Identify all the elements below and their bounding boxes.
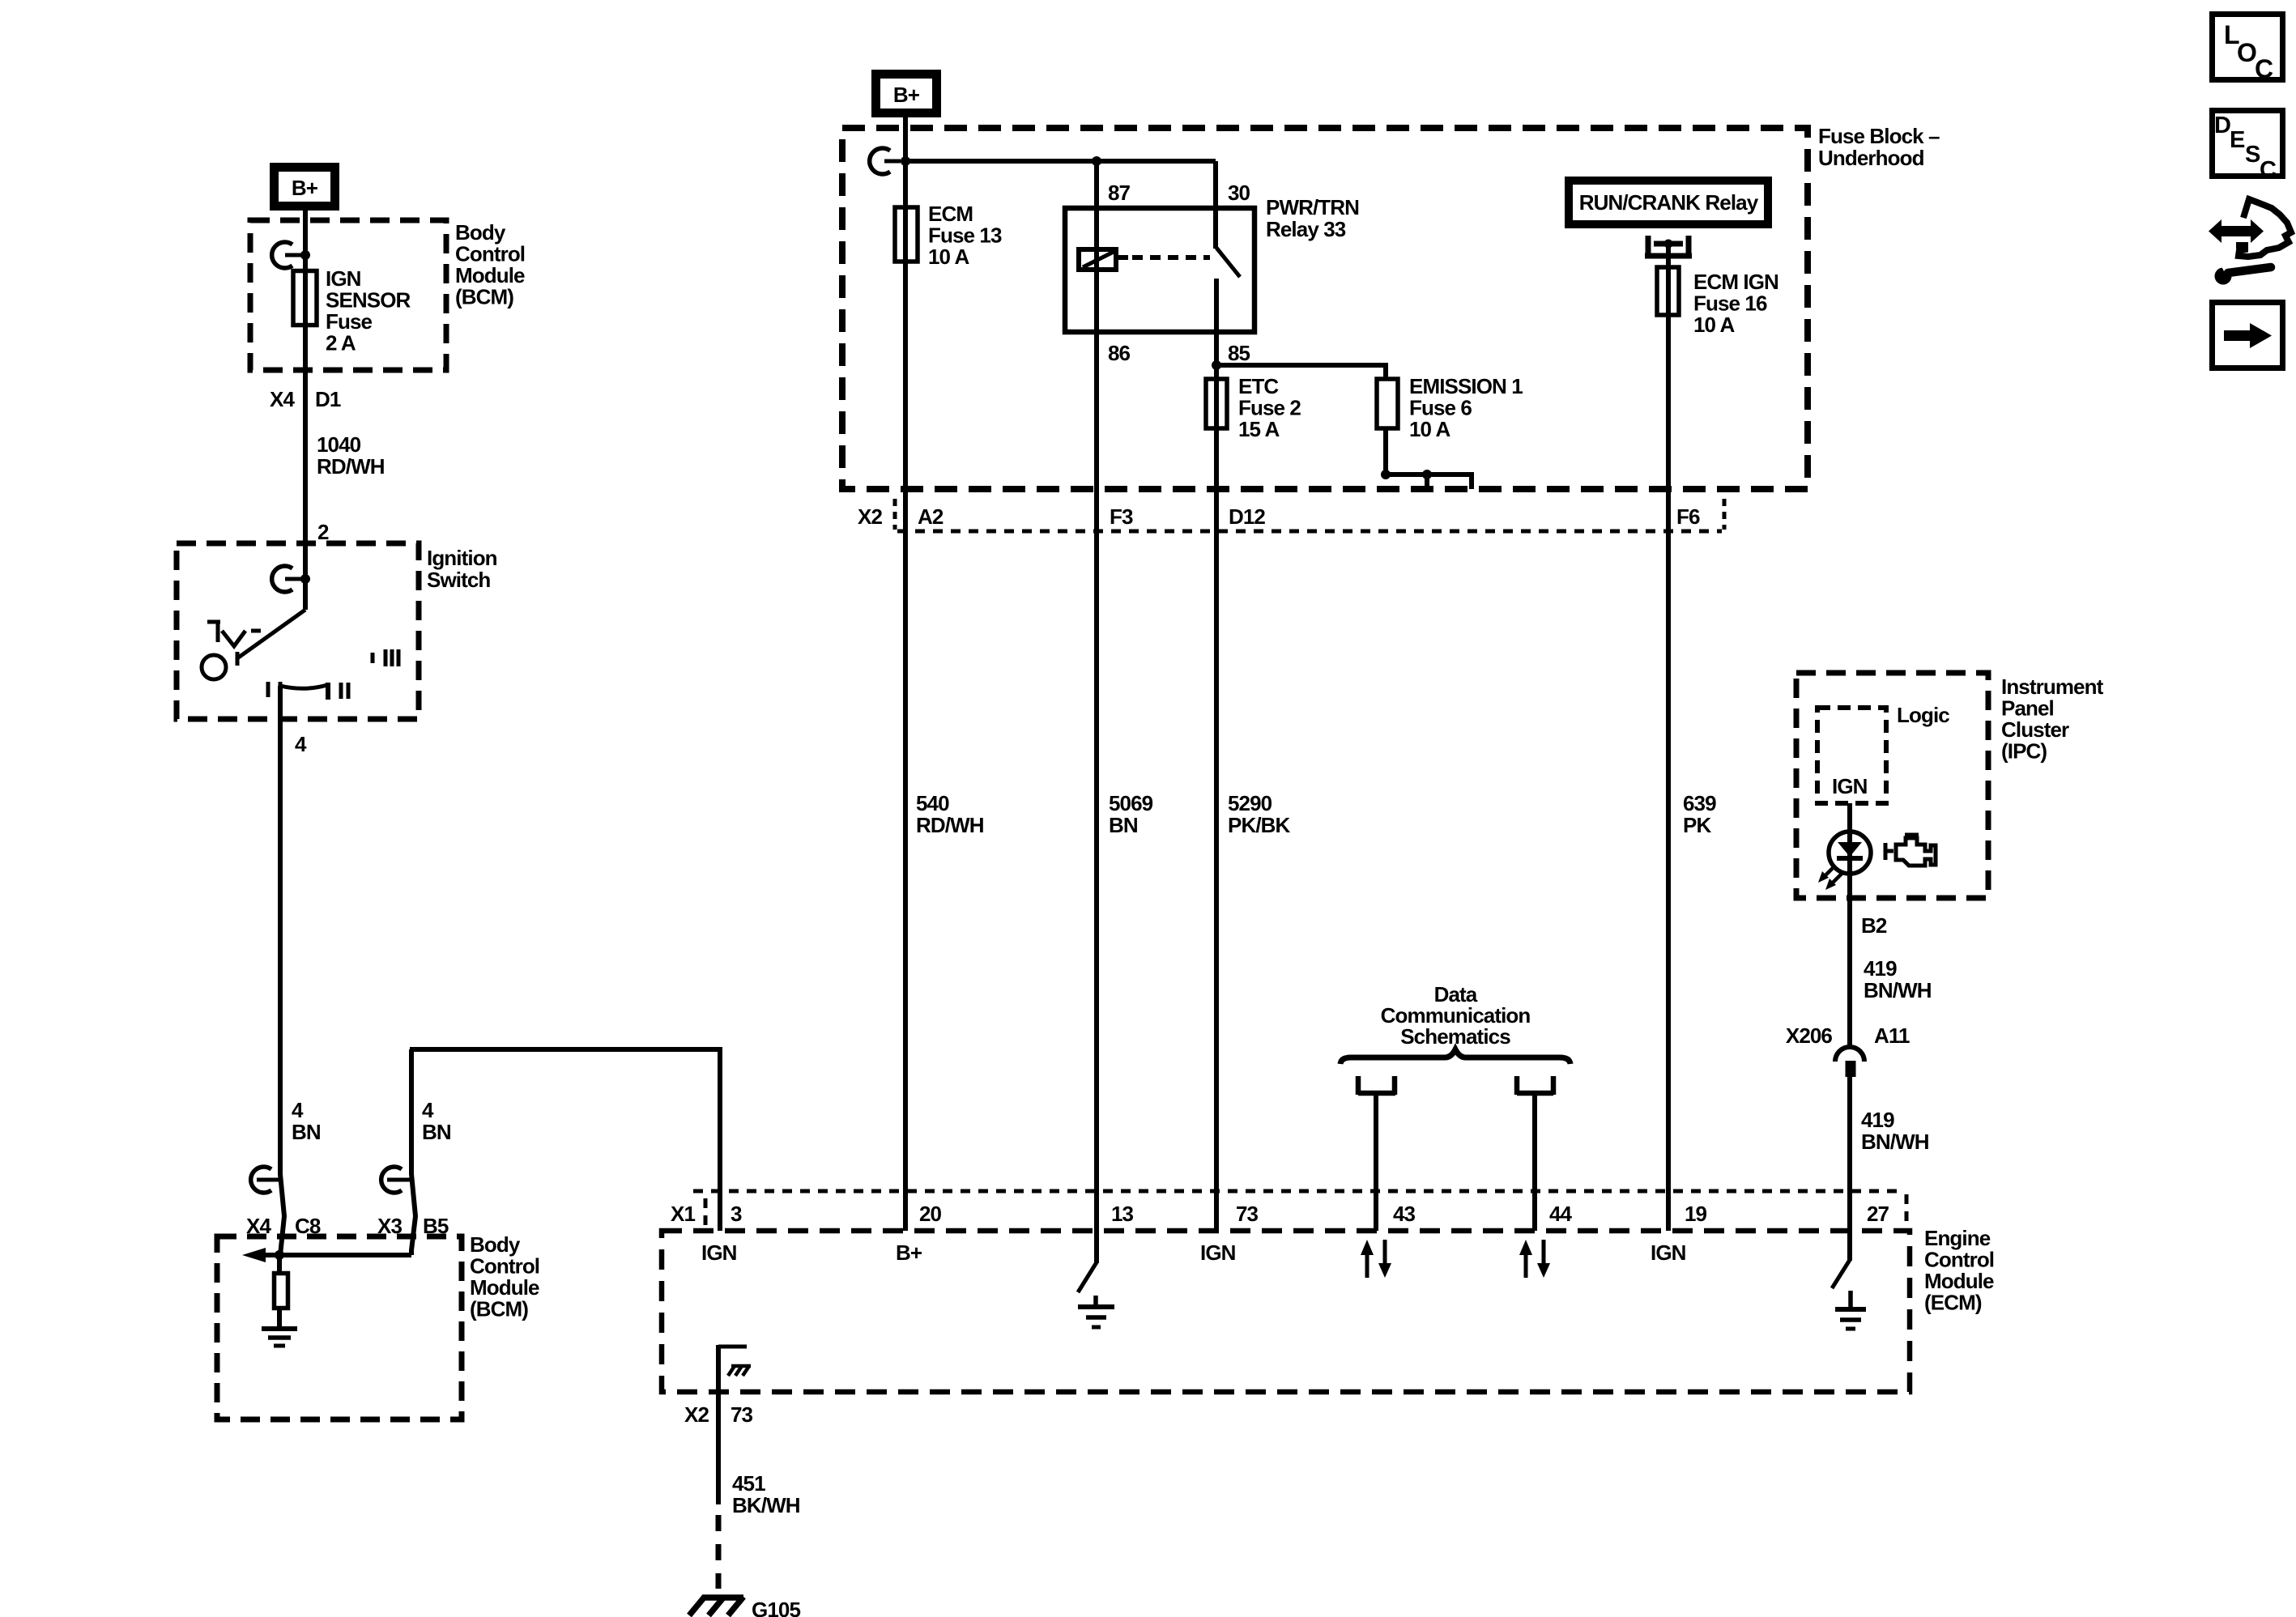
wire ignition pin4 to BCM C8 [280,686,284,1255]
LED emission arrows [1818,866,1842,890]
svg-text:X206: X206 [1786,1023,1833,1048]
node junction at B+ feed [901,156,910,166]
wire relay pin 85 down [1214,279,1219,1231]
wire jumper to ECM pin3 [411,1049,415,1255]
indicator LED [1829,832,1871,874]
wire C8 to B5 internal [279,1253,411,1257]
wire 85 branch to EMISSION fuse [1216,365,1386,379]
svg-text:E: E [2230,127,2245,153]
key symbol [202,620,261,679]
wire IGN to X206 [1847,803,1852,1046]
wire RUN/CRANK to ECM pin 19 [1666,244,1671,1231]
relay RUN/CRANK Relay label box [1569,181,1768,224]
ground G105 chassis symbol [689,1597,743,1615]
svg-text:A2: A2 [918,504,944,529]
node junction at 85 branch [1212,360,1221,370]
svg-text:C: C [2260,157,2277,183]
connector terminal (fuse block feed) [870,148,901,174]
relay coil [1079,249,1116,270]
connector line X2 [897,530,1722,534]
icon diagnostic (arrow + wrench) [2209,199,2291,285]
svg-text:IGN: IGN [1200,1240,1236,1265]
logic dashed box [1817,708,1886,803]
svg-text:X2: X2 [858,504,882,529]
node junction C8 [275,1250,284,1260]
svg-text:73: 73 [731,1402,753,1427]
data arrows pin 43 [1361,1240,1391,1278]
internal element (load) [277,1255,282,1273]
svg-text:D12: D12 [1229,504,1265,529]
engine icon (MIL) [1885,835,1936,866]
connector X206 symbol [1835,1047,1864,1077]
ground (ECM pin27) [1835,1291,1866,1329]
svg-text:G105: G105 [752,1598,800,1617]
wire B+ to ignition switch [303,211,308,610]
svg-text:Fuse Block –Underhood: Fuse Block –Underhood [1818,124,1940,170]
ground (BCM internal) [262,1329,297,1346]
svg-text:X2: X2 [684,1402,709,1427]
continuation arrow [266,1253,279,1257]
switch position arc [280,682,328,700]
connector stub pin 44 [1517,1076,1553,1095]
brace [1340,1049,1570,1064]
fuse ECM Fuse 13 10A [895,207,918,262]
svg-text:F6: F6 [1676,504,1700,529]
wire B+ down to ECM pin 20 [903,117,908,1231]
icon LOC [2213,15,2283,84]
svg-text:X4: X4 [270,387,295,411]
node junction pin87 feed [1092,156,1101,166]
svg-text:IGN: IGN [701,1240,737,1265]
wire pin13 stub [1094,1231,1099,1263]
svg-text:B2: B2 [1861,913,1887,938]
ECM pin27 internal switch [1832,1260,1850,1288]
power symbol B+ (left) [275,168,335,206]
svg-text:13: 13 [1111,1202,1134,1226]
ground (ECM pin13) [1078,1296,1114,1327]
BCM upper dashed box [250,220,446,370]
relay contact blade [1216,248,1240,277]
ECM dashed box [662,1231,1910,1392]
svg-text:IGN: IGN [1832,774,1868,798]
svg-text:B+: B+ [896,1240,922,1265]
svg-text:PWR/TRNRelay 33: PWR/TRNRelay 33 [1266,195,1359,241]
svg-text:D1: D1 [315,387,341,411]
svg-text:X1: X1 [671,1202,695,1226]
fuse IGN SENSOR Fuse 2A [293,271,317,326]
svg-text:4: 4 [295,732,307,756]
BCM lower dashed box [217,1236,462,1419]
relay PWR/TRN Relay 33 box [1065,208,1254,332]
svg-text:C: C [2255,54,2273,83]
node junctions on EMISSION output [1381,470,1391,479]
relay socket terminal under RUN/CRANK [1645,236,1692,257]
connector stub pin 43 [1358,1076,1395,1095]
wire X206 to ECM pin 27 [1847,1077,1852,1231]
wire feed to relay [905,159,1216,164]
connector terminal in BCM [272,242,310,268]
Ignition Switch dashed box [177,543,419,719]
connector terminal in ignition switch [272,566,310,592]
connector terminal X3-B5 [381,1167,410,1193]
IPC dashed box [1796,673,1988,898]
svg-text:43: 43 [1393,1202,1416,1226]
svg-text:B+: B+ [893,83,920,107]
svg-text:A11: A11 [1874,1023,1910,1048]
switch position III ticks [371,653,375,663]
icon forward arrow [2213,303,2283,368]
data arrows pin 44 [1519,1240,1550,1278]
svg-text:S: S [2245,142,2260,168]
switch position I tick [266,682,270,697]
wire pin27 stub [1847,1231,1852,1261]
power symbol B+ (top) [876,74,937,113]
switch position II ticks [339,683,343,699]
svg-text:3: 3 [731,1202,742,1226]
fuse ECM IGN Fuse 16 10A [1657,267,1679,315]
fuse ETC Fuse 2 15A [1206,379,1227,428]
svg-text:87: 87 [1108,181,1131,205]
svg-text:D: D [2214,113,2231,138]
svg-text:Logic: Logic [1897,703,1949,727]
connector terminal X4-C8 [251,1167,279,1193]
svg-text:85: 85 [1228,341,1250,365]
ECM connector dotted line [693,1189,1905,1194]
Fuse Block Underhood dashed box [842,128,1808,489]
relay coil-contact dashed link [1118,255,1128,260]
ground (ECM internal chassis) [718,1347,751,1376]
icon DESC [2213,111,2283,184]
wire pin 44 [1532,1096,1537,1231]
ECM pin13 internal switch [1078,1262,1097,1292]
wire pin 43 [1374,1096,1378,1231]
fuse EMISSION 1 Fuse 6 10A [1377,379,1398,428]
wire dashed to G105 [716,1515,722,1589]
svg-text:20: 20 [919,1202,942,1226]
svg-text:86: 86 [1108,341,1131,365]
svg-text:19: 19 [1685,1202,1707,1226]
wire EMISSION fuse output stubs [1386,428,1472,489]
wire to relay pin 87 / down to ECM pin 13 [1094,161,1099,1231]
svg-text:RUN/CRANK Relay: RUN/CRANK Relay [1579,190,1759,215]
svg-text:73: 73 [1236,1202,1259,1226]
svg-text:30: 30 [1228,181,1250,205]
svg-text:B+: B+ [292,176,318,200]
svg-text:44: 44 [1549,1202,1573,1226]
switch blade [237,610,305,658]
svg-text:27: 27 [1867,1202,1889,1226]
wire to relay pin 30 [1213,161,1218,249]
svg-text:F3: F3 [1110,504,1133,529]
wire ECM X2-73 ground wire [716,1345,721,1504]
svg-text:IGN: IGN [1651,1240,1686,1265]
svg-text:IgnitionSwitch: IgnitionSwitch [427,546,497,592]
